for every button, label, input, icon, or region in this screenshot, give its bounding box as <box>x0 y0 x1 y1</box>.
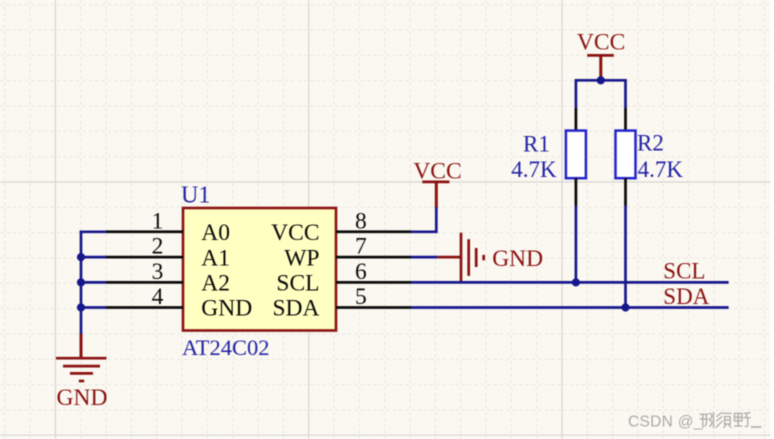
ground bars <box>56 358 107 381</box>
svg-text:A2: A2 <box>201 271 230 297</box>
junction <box>77 303 85 311</box>
junction <box>597 76 605 84</box>
wire VCC tee <box>576 80 626 108</box>
svg-text:2: 2 <box>152 234 164 260</box>
wire SDA net <box>411 306 729 309</box>
pin 8 lead <box>336 230 411 233</box>
wire stub pin 3 <box>80 281 106 284</box>
ground bars (sideways) <box>461 233 484 283</box>
wire stub pin 2 <box>80 256 106 259</box>
pin 4 lead <box>106 306 183 309</box>
svg-text:SDA: SDA <box>663 284 709 309</box>
power VCC stem <box>435 182 438 208</box>
svg-text:4: 4 <box>152 284 164 310</box>
svg-text:CSDN @_: CSDN @_ <box>628 413 703 430</box>
power VCC bar <box>587 54 614 57</box>
pin 5 lead <box>336 306 411 309</box>
junction <box>77 278 85 286</box>
svg-text:VCC: VCC <box>271 220 319 246</box>
svg-text:R1: R1 <box>523 132 550 157</box>
svg-text:WP: WP <box>284 245 319 271</box>
resistor R1 body <box>566 131 586 179</box>
svg-text:VCC: VCC <box>413 158 461 184</box>
svg-text:5: 5 <box>355 284 367 310</box>
wire pin7 to GND <box>411 256 438 259</box>
resistor R2 body <box>616 131 636 179</box>
svg-text:A1: A1 <box>201 245 230 271</box>
IC U1 body (AT24C02) <box>183 208 336 331</box>
svg-text:R2: R2 <box>637 131 664 156</box>
junction SCL/R1 <box>572 278 580 286</box>
svg-text:8: 8 <box>355 208 367 234</box>
power VCC stem <box>599 55 602 80</box>
svg-text:SCL: SCL <box>663 258 705 283</box>
wire stub pin 1 <box>80 230 106 233</box>
pin 6 lead <box>336 281 411 284</box>
svg-text:4.7K: 4.7K <box>638 157 684 182</box>
svg-text:U1: U1 <box>181 182 210 208</box>
svg-text:6: 6 <box>355 259 367 285</box>
svg-text:SDA: SDA <box>272 296 319 322</box>
svg-text:A0: A0 <box>201 220 230 246</box>
pin 7 lead <box>336 256 411 259</box>
svg-text:7: 7 <box>355 234 367 260</box>
svg-text:1: 1 <box>152 208 164 234</box>
svg-text:AT24C02: AT24C02 <box>182 335 270 360</box>
svg-text:3: 3 <box>152 259 164 285</box>
pin 3 lead <box>106 281 183 284</box>
svg-text:SCL: SCL <box>276 271 319 297</box>
watermark CJK glyphs (approximated paths) <box>700 413 760 428</box>
ground GND (pin 7) stub <box>438 256 461 259</box>
sheet area below bottom grid line (slightly lighter) <box>0 436 771 439</box>
pin 1 lead <box>106 230 183 233</box>
svg-text:4.7K: 4.7K <box>511 157 557 182</box>
wire SCL net <box>411 281 729 284</box>
wire R1 to SCL <box>575 206 578 283</box>
resistor R2 bottom lead <box>624 178 627 205</box>
svg-text:VCC: VCC <box>577 30 625 56</box>
junction <box>77 253 85 261</box>
resistor R1 top lead <box>575 108 578 131</box>
resistor R2 top lead <box>624 108 627 131</box>
svg-text:GND: GND <box>201 296 252 322</box>
power VCC bar <box>422 180 449 183</box>
junction SDA/R2 <box>621 303 629 311</box>
svg-text:GND: GND <box>57 385 108 411</box>
resistor R1 bottom lead <box>575 178 578 205</box>
wire left bus vertical <box>80 230 83 335</box>
wire stub pin 4 <box>80 306 106 309</box>
wire pin8 to VCC <box>411 207 436 232</box>
pin 2 lead <box>106 256 183 259</box>
svg-text:GND: GND <box>492 246 543 272</box>
wire R2 to SDA <box>624 206 627 308</box>
ground GND (bottom left) stem <box>80 334 83 358</box>
